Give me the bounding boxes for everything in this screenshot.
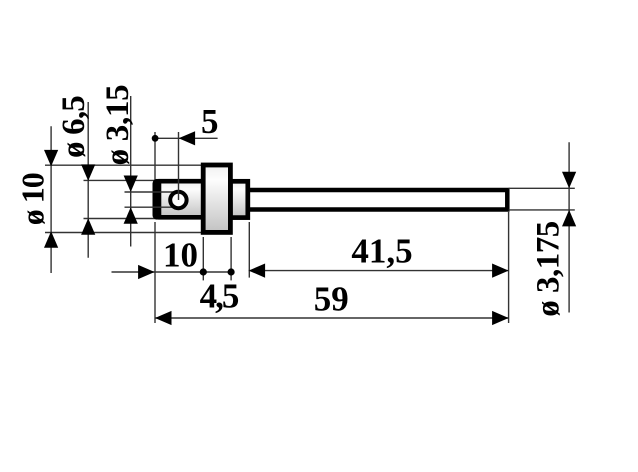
label 4,5 — [200, 277, 239, 316]
flange disc — [203, 165, 230, 232]
wire: dimension line 5 — [155, 137, 218, 139]
arrow 41,5 right — [492, 264, 509, 278]
arrow 59 left — [155, 311, 172, 325]
step cylinder — [230, 181, 247, 217]
svg-text:4,5: 4,5 — [200, 277, 239, 316]
wire: dimension line ø10 vertical — [50, 126, 52, 273]
wire: dimension line 10 and 4,5 — [112, 271, 232, 273]
label 41,5 — [351, 232, 412, 271]
arrow 59 right — [492, 311, 509, 325]
wire: extension line ø3,15 top — [125, 191, 175, 193]
label ø3,175 — [531, 221, 567, 317]
wire: extension line ø6,5 top — [84, 179, 157, 181]
wire: extension line ø3,175 bottom — [509, 209, 575, 211]
dot terminator 4,5 right — [228, 268, 235, 275]
arrow ø3,15 bottom — [124, 207, 138, 224]
wire: dimension line 59 — [155, 317, 509, 319]
wire: extension line ø6,5 bottom — [84, 218, 157, 220]
svg-text:41,5: 41,5 — [351, 232, 412, 271]
svg-text:ø 3,15: ø 3,15 — [100, 85, 136, 166]
arrow ø10 bottom — [44, 231, 58, 248]
wire: extension line flange left — [202, 237, 204, 280]
wire: extension line hole centre — [178, 132, 180, 200]
arrow ø6,5 bottom — [81, 218, 95, 235]
wire: extension line step right — [248, 222, 250, 278]
svg-text:ø 10: ø 10 — [15, 173, 51, 225]
wire: dimension line ø6,5 vertical — [87, 102, 89, 258]
wire: extension line left face of body (top, for 5) — [154, 132, 156, 181]
wire: extension line ø3,15 bottom — [125, 206, 175, 208]
shaft ø3,175 — [248, 190, 508, 210]
arrow ø3,175 top — [562, 172, 576, 189]
body cylinder left cap — [153, 179, 162, 220]
wire: extension line ø10 top — [45, 164, 203, 166]
label 5 — [201, 102, 219, 141]
label ø10 — [15, 173, 51, 225]
arrow 10 — [138, 265, 155, 279]
arrow ø6,5 top — [81, 164, 95, 181]
wire: dimension line 41,5 — [249, 270, 509, 272]
wire: extension line left face (bottom) — [154, 222, 156, 323]
label 59 — [314, 279, 349, 318]
wire: extension line flange right — [230, 237, 232, 280]
arrow ø3,15 top — [124, 176, 138, 193]
hole in body — [170, 192, 186, 208]
arrow ø3,175 bottom — [562, 210, 576, 227]
wire: dimension line ø3,175 vertical — [568, 142, 570, 312]
wire: dimension line ø3,15 vertical — [130, 96, 132, 247]
svg-text:59: 59 — [314, 279, 349, 318]
svg-text:10: 10 — [163, 235, 198, 274]
svg-text:ø 6,5: ø 6,5 — [56, 96, 92, 158]
arrow 5 — [179, 131, 196, 145]
svg-text:5: 5 — [201, 102, 219, 141]
wire: extension line ø10 bottom — [45, 232, 203, 234]
wire: extension line ø3,175 top — [509, 187, 575, 189]
arrow 41,5 left — [249, 264, 266, 278]
arrow ø10 top — [44, 150, 58, 167]
dot terminator 4,5 left — [200, 268, 207, 275]
label ø3,15 — [100, 85, 136, 166]
svg-text:ø 3,175: ø 3,175 — [531, 221, 567, 317]
wire: extension line shaft end — [508, 212, 510, 323]
dot terminator 5 — [152, 135, 159, 142]
body cylinder — [155, 181, 205, 217]
label ø6,5 — [56, 96, 92, 158]
label 10 — [163, 235, 198, 274]
